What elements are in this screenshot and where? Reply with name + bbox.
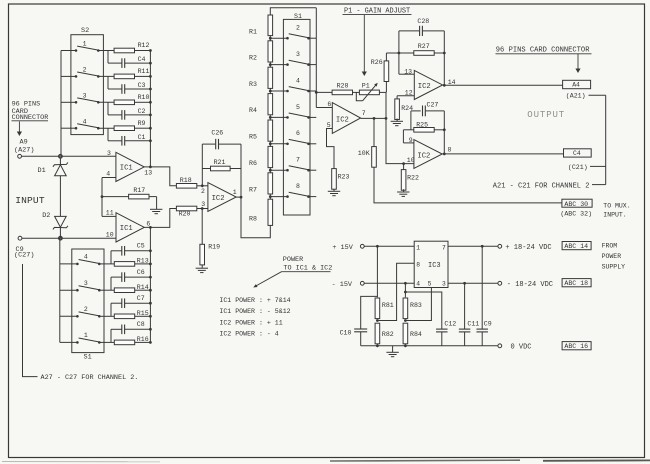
note 96 pins card connector (input) xyxy=(12,101,49,122)
switch S1mid-4 xyxy=(286,77,316,92)
capacitor C9 xyxy=(476,246,491,345)
label 0 VDC xyxy=(511,343,532,351)
svg-text:13: 13 xyxy=(404,68,412,75)
svg-text:R21: R21 xyxy=(214,159,226,166)
pin 7 label IC3 xyxy=(442,244,446,251)
svg-text:R84: R84 xyxy=(410,331,422,338)
svg-text:R83: R83 xyxy=(410,302,422,309)
pin 10 label out xyxy=(407,157,415,164)
svg-text:R6: R6 xyxy=(249,160,257,167)
node bus R12 xyxy=(149,49,152,52)
feedback left vertical lower out-amp xyxy=(402,130,404,143)
svg-text:C3: C3 xyxy=(138,82,146,89)
svg-text:D2: D2 xyxy=(42,212,50,220)
terminal -18-24 xyxy=(498,281,502,285)
note 96 pins card connector (output) xyxy=(496,47,592,55)
wire gain out to pin 10 xyxy=(386,92,414,163)
wire pin 7 rail xyxy=(448,245,498,248)
note IC power pins xyxy=(219,297,290,338)
pin 10 label xyxy=(106,232,114,239)
svg-text:C10: C10 xyxy=(340,329,352,336)
diode D2 xyxy=(42,212,68,238)
svg-text:10: 10 xyxy=(106,232,114,239)
note A21-C21 channel 2 xyxy=(493,183,606,191)
terminal -15V xyxy=(360,281,364,285)
switch S1mid-8 xyxy=(286,183,316,198)
capacitor C28 xyxy=(399,18,444,36)
feedback right vertical upper out-amp xyxy=(443,31,446,87)
svg-text:10K: 10K xyxy=(358,150,370,157)
label +15V xyxy=(332,244,353,252)
wire +15V to pin 1 xyxy=(364,245,414,248)
node ladder y197 xyxy=(269,194,288,200)
pin 1 label xyxy=(233,189,237,196)
resistor R27 xyxy=(386,43,445,55)
svg-text:A27 - C27 FOR CHANNEL 2.: A27 - C27 FOR CHANNEL 2. xyxy=(41,374,139,382)
svg-text:IC2: IC2 xyxy=(336,116,349,124)
label INPUT xyxy=(15,195,45,206)
svg-text:+ 18-24 VDC: + 18-24 VDC xyxy=(505,244,551,252)
svg-text:2: 2 xyxy=(83,67,87,74)
svg-text:(A21): (A21) xyxy=(566,93,586,100)
svg-text:C6: C6 xyxy=(137,269,145,276)
svg-text:1: 1 xyxy=(83,41,87,48)
switch S1mid-6 xyxy=(286,130,316,145)
wire IC1 upper output xyxy=(144,167,176,186)
terminal 0VDC xyxy=(498,344,502,348)
svg-text:S1: S1 xyxy=(294,13,302,20)
pin 4 label xyxy=(106,170,110,177)
feedback bus buffer left xyxy=(201,144,204,187)
wire A9 to IC1 pin 3 xyxy=(22,155,116,157)
pin 8 label xyxy=(448,146,452,153)
svg-text:4: 4 xyxy=(84,254,88,261)
svg-text:R15: R15 xyxy=(137,310,149,317)
svg-text:A21 - C21 FOR CHANNEL 2: A21 - C21 FOR CHANNEL 2 xyxy=(493,183,590,191)
node bus R13 xyxy=(149,263,152,266)
wire 10K to mux bus xyxy=(374,167,562,203)
node feedback A out xyxy=(149,166,152,169)
pin 6 label gain xyxy=(327,101,331,108)
svg-text:R13: R13 xyxy=(137,258,149,265)
svg-text:A9: A9 xyxy=(20,139,28,147)
capacitor C1 xyxy=(108,128,150,145)
svg-text:14: 14 xyxy=(448,79,456,86)
inverting bus IC1 xyxy=(101,178,103,217)
svg-text:IC2: IC2 xyxy=(212,195,225,203)
wire output C to connector xyxy=(442,153,563,155)
wire IC1 pin 4 xyxy=(102,177,116,179)
svg-text:SUPPLY: SUPPLY xyxy=(602,263,626,270)
connector C4 xyxy=(564,149,592,157)
op-amp IC1 upper xyxy=(116,152,144,181)
feedback bus C xyxy=(149,227,151,342)
capacitor C8 xyxy=(111,321,150,342)
node bus R16 xyxy=(149,341,152,344)
svg-text:IC1 POWER : - 5&12: IC1 POWER : - 5&12 xyxy=(219,308,290,315)
svg-text:3: 3 xyxy=(201,201,205,208)
svg-text:8: 8 xyxy=(296,183,300,190)
svg-text:+ 15V: + 15V xyxy=(332,244,353,252)
svg-text:7: 7 xyxy=(442,244,446,251)
terminal +15V xyxy=(360,244,364,248)
wire +15V down to R81 xyxy=(376,246,378,297)
bracket channel 2 xyxy=(605,95,607,184)
switch bank S1-left label xyxy=(84,354,92,362)
connector ABC 30 xyxy=(562,199,592,208)
capacitor C12 xyxy=(405,292,456,346)
terminal C9 xyxy=(18,236,22,240)
resistor R8 xyxy=(249,199,273,225)
svg-text:R1: R1 xyxy=(249,28,257,35)
svg-text:ABC 18: ABC 18 xyxy=(564,280,588,287)
switch S2-4 xyxy=(61,118,100,129)
terminal A9 xyxy=(18,154,22,158)
node ladder y144 xyxy=(269,141,288,147)
svg-text:C2: C2 xyxy=(138,108,146,115)
wire pin 13 xyxy=(399,73,414,75)
connector ABC 16 xyxy=(562,342,591,351)
node bus C5 xyxy=(149,249,152,252)
ground R17 xyxy=(150,197,162,214)
resistor R21 xyxy=(202,159,241,171)
connector ABC 14 xyxy=(562,242,591,251)
svg-text:(A27): (A27) xyxy=(14,146,34,154)
svg-text:(ABC 32): (ABC 32) xyxy=(560,210,592,217)
label +18-24 VDC xyxy=(505,244,551,252)
capacitor C2 xyxy=(108,102,150,119)
svg-text:C7: C7 xyxy=(137,295,145,302)
svg-text:2: 2 xyxy=(201,188,205,195)
node bus C2 xyxy=(149,114,152,117)
resistor R23 xyxy=(332,169,350,190)
svg-text:3: 3 xyxy=(296,51,300,58)
node input C xyxy=(59,237,62,240)
pin 9 label xyxy=(409,137,413,144)
capacitor C7 xyxy=(111,295,150,316)
svg-text:R27: R27 xyxy=(418,43,430,50)
svg-text:TO MUX.: TO MUX. xyxy=(603,203,630,210)
resistor R25 xyxy=(403,122,444,133)
svg-text:R28: R28 xyxy=(337,82,349,89)
svg-text:3: 3 xyxy=(83,92,87,99)
svg-text:3: 3 xyxy=(84,280,88,287)
svg-text:C5: C5 xyxy=(137,243,145,250)
node bus R9 xyxy=(149,127,152,130)
resistor R18 xyxy=(176,177,208,188)
feedback right vertical lower out-amp xyxy=(443,111,446,155)
pin 13 label xyxy=(144,170,152,177)
op-amp IC1 lower xyxy=(116,213,144,242)
svg-text:C1: C1 xyxy=(138,134,146,141)
label (C27) xyxy=(14,252,34,260)
svg-text:IC2 POWER : - 4: IC2 POWER : - 4 xyxy=(219,330,278,337)
pin 1 label IC3 xyxy=(416,244,420,251)
svg-text:ABC 30: ABC 30 xyxy=(564,201,588,208)
feedback jog C27 xyxy=(410,111,412,130)
wire ladder top xyxy=(270,8,316,15)
svg-text:C9: C9 xyxy=(484,320,492,327)
svg-text:R25: R25 xyxy=(416,122,428,129)
label -18-24 VDC xyxy=(507,281,553,289)
svg-text:R82: R82 xyxy=(382,331,394,338)
svg-text:- 15V: - 15V xyxy=(332,281,353,289)
svg-text:INPUT: INPUT xyxy=(15,195,45,206)
svg-text:R14: R14 xyxy=(137,284,149,291)
node ladder y117 xyxy=(269,115,288,121)
svg-text:R26: R26 xyxy=(371,59,383,66)
node ladder y91 xyxy=(269,88,288,94)
svg-text:C26: C26 xyxy=(211,130,223,137)
svg-text:8: 8 xyxy=(416,262,420,269)
switch S1mid-3 xyxy=(286,51,316,66)
svg-text:3: 3 xyxy=(442,281,446,288)
note from power supply xyxy=(602,242,626,270)
label (ABC 32) xyxy=(560,210,592,217)
resistor R81 xyxy=(375,298,394,322)
svg-text:D1: D1 xyxy=(38,167,46,175)
svg-text:C28: C28 xyxy=(417,18,429,25)
pin 8 label IC3 xyxy=(416,262,420,269)
ground R24 xyxy=(391,119,403,126)
node bus R10 xyxy=(149,101,152,104)
svg-text:IC1 POWER : + 7&14: IC1 POWER : + 7&14 xyxy=(219,297,290,304)
ground R23 xyxy=(328,189,340,196)
svg-text:(C21): (C21) xyxy=(568,164,588,171)
wire -15V to pin 4 xyxy=(364,282,414,285)
svg-text:C4: C4 xyxy=(573,150,581,157)
wire pin 5 to R23 xyxy=(327,129,335,169)
resistor R5 xyxy=(249,120,273,141)
scan smudge bottom-mid xyxy=(330,459,520,462)
svg-text:4: 4 xyxy=(83,118,87,125)
wire output A to connector xyxy=(443,84,563,86)
pin 4 label IC3 xyxy=(416,281,420,288)
svg-text:R23: R23 xyxy=(338,173,350,180)
wire IC1 lower output xyxy=(144,209,176,228)
input bus left (A channel) xyxy=(60,51,62,157)
svg-text:IC1: IC1 xyxy=(120,225,133,233)
svg-text:R10: R10 xyxy=(138,94,150,101)
switch bank S2 box xyxy=(71,35,104,135)
capacitor C10 xyxy=(340,296,378,345)
svg-text:5: 5 xyxy=(296,104,300,111)
feedback bus A xyxy=(149,51,151,168)
terminal +18-24 xyxy=(498,244,502,248)
resistor R10 xyxy=(98,94,150,105)
label (C21) xyxy=(568,164,606,171)
label A9 xyxy=(20,139,28,147)
gain select bus xyxy=(315,8,318,108)
switch S2-1 xyxy=(61,41,100,52)
svg-text:R8: R8 xyxy=(249,215,257,222)
switch S2-2 xyxy=(61,67,100,78)
node bus R14 xyxy=(149,289,152,292)
op-amp IC2 output C xyxy=(414,140,442,169)
svg-text:R2: R2 xyxy=(249,54,257,61)
svg-text:1: 1 xyxy=(416,244,420,251)
potentiometer P1 xyxy=(356,82,386,101)
svg-text:8: 8 xyxy=(448,146,452,153)
svg-text:C12: C12 xyxy=(444,320,456,327)
wire pin 3 rail xyxy=(448,282,498,285)
resistor R14 xyxy=(99,284,150,293)
capacitor C6 xyxy=(111,269,150,290)
svg-text:2: 2 xyxy=(296,25,300,32)
label (A21) xyxy=(566,93,606,100)
switch bank S2 label xyxy=(81,27,89,35)
resistor R20 xyxy=(176,206,208,217)
label -15V xyxy=(332,281,353,289)
node bus C8 xyxy=(149,328,152,331)
arrow to A4 xyxy=(575,54,580,73)
svg-text:S1: S1 xyxy=(84,354,92,362)
svg-text:IC1: IC1 xyxy=(120,165,133,173)
svg-text:INPUT.: INPUT. xyxy=(603,211,626,218)
wire gain output xyxy=(361,117,388,120)
svg-text:POWER: POWER xyxy=(602,253,622,260)
svg-text:0 VDC: 0 VDC xyxy=(511,343,532,351)
svg-text:7: 7 xyxy=(362,110,366,117)
input bus left (C channel) xyxy=(59,238,61,342)
svg-text:ABC 14: ABC 14 xyxy=(564,243,588,250)
node ladder y170 xyxy=(269,167,288,173)
svg-text:R5: R5 xyxy=(249,134,257,141)
pin 2 label xyxy=(201,188,205,195)
pin 3 label IC3 xyxy=(442,281,446,288)
svg-text:R20: R20 xyxy=(179,211,191,218)
pin 6 label xyxy=(146,221,150,228)
pin 14 label xyxy=(448,79,456,86)
capacitor C11 xyxy=(459,283,479,346)
resistor R13 xyxy=(99,258,150,267)
resistor R7 xyxy=(249,173,273,194)
svg-text:IC2 POWER : + 11: IC2 POWER : + 11 xyxy=(219,319,282,326)
svg-text:R11: R11 xyxy=(138,68,150,75)
resistor R84 xyxy=(403,323,422,347)
node bus R11 xyxy=(149,75,152,78)
capacitor C4 xyxy=(108,51,150,68)
note P1 gain adjust xyxy=(343,8,412,16)
wire D1 to D2 xyxy=(59,176,61,217)
ground R22 xyxy=(397,189,409,196)
wire -15V down to R83 xyxy=(404,283,407,297)
svg-text:4: 4 xyxy=(296,77,300,84)
regulator IC3 xyxy=(414,241,448,287)
resistor R22 xyxy=(401,162,419,190)
ground R19 xyxy=(196,268,208,272)
svg-text:10: 10 xyxy=(407,157,415,164)
leader arrow power note xyxy=(252,272,281,289)
svg-text:1: 1 xyxy=(233,189,237,196)
arrow to A9 terminal xyxy=(17,122,22,137)
svg-text:R3: R3 xyxy=(249,81,257,88)
resistor 10K xyxy=(358,118,377,167)
wire buffer output xyxy=(236,197,270,238)
pin 12 label xyxy=(405,89,413,96)
switch box S1 mid xyxy=(283,13,310,215)
svg-text:OUTPUT: OUTPUT xyxy=(527,110,565,120)
svg-text:C4: C4 xyxy=(138,56,146,63)
capacitor C3 xyxy=(108,76,150,93)
feedback bus buffer right xyxy=(240,144,243,198)
switch bank S1-left box xyxy=(72,249,104,353)
svg-text:13: 13 xyxy=(144,170,152,177)
switch S1-3 xyxy=(60,280,101,292)
pin 5 label gain xyxy=(327,122,331,129)
connector A4 xyxy=(563,80,591,88)
svg-text:9: 9 xyxy=(409,137,413,144)
wire pin 5 to R83-R84 node xyxy=(405,288,431,321)
ground rail xyxy=(361,345,498,347)
resistor R2 xyxy=(249,41,273,62)
node ladder y38 xyxy=(269,35,288,41)
svg-text:R17: R17 xyxy=(133,187,145,194)
pin 5 label IC3 xyxy=(428,281,432,288)
capacitor C26 xyxy=(202,130,241,150)
op-amp IC2 gain xyxy=(332,103,360,134)
switch S1-1 xyxy=(60,332,101,344)
wire IC1 pin 11 xyxy=(102,215,116,217)
diode D1 xyxy=(38,158,68,176)
node bus C1 xyxy=(149,139,152,142)
svg-text:7: 7 xyxy=(296,157,300,164)
svg-text:3: 3 xyxy=(107,150,111,157)
arrow to P1 xyxy=(362,15,367,76)
svg-text:C11: C11 xyxy=(467,320,479,327)
svg-text:6: 6 xyxy=(327,101,331,108)
svg-text:R12: R12 xyxy=(138,42,150,49)
note power to IC1 IC2 xyxy=(282,256,333,273)
wire pin 6 xyxy=(316,107,332,109)
op-amp IC2 buffer xyxy=(208,183,236,212)
resistor R12 xyxy=(98,42,150,53)
svg-text:11: 11 xyxy=(106,209,114,216)
resistor R4 xyxy=(249,94,273,115)
resistor R16 xyxy=(99,336,150,345)
svg-text:R81: R81 xyxy=(382,302,394,309)
resistor R82 xyxy=(375,323,394,347)
op-amp IC2 output A xyxy=(414,70,442,99)
svg-text:- 18-24 VDC: - 18-24 VDC xyxy=(507,281,553,289)
resistor R9 xyxy=(98,120,150,131)
resistor R26 xyxy=(371,53,389,92)
label (A27) xyxy=(14,146,34,154)
wire pin 9 xyxy=(403,142,414,144)
node input A xyxy=(59,155,62,158)
resistor R83 xyxy=(403,298,422,322)
pin 3 label xyxy=(107,150,111,157)
svg-text:FROM: FROM xyxy=(602,242,618,249)
resistor R1 xyxy=(249,15,273,36)
svg-text:R18: R18 xyxy=(180,177,192,184)
svg-text:S2: S2 xyxy=(81,27,89,35)
note A27-C27 channel 2 xyxy=(23,264,139,382)
svg-text:C27: C27 xyxy=(427,102,439,109)
pin 13 label out xyxy=(404,68,412,75)
resistor R19 xyxy=(200,207,220,268)
svg-text:ABC 16: ABC 16 xyxy=(564,343,588,350)
svg-text:5: 5 xyxy=(428,281,432,288)
svg-text:R22: R22 xyxy=(407,174,419,181)
svg-text:IC2: IC2 xyxy=(417,152,430,160)
wire pin 12 xyxy=(397,95,414,97)
switch S1mid-7 xyxy=(286,157,316,172)
node bus C7 xyxy=(149,302,152,305)
wire pin 8 to R81-R82 node xyxy=(377,263,414,320)
node bus C3 xyxy=(149,88,152,91)
switch S1-4 xyxy=(60,254,101,266)
